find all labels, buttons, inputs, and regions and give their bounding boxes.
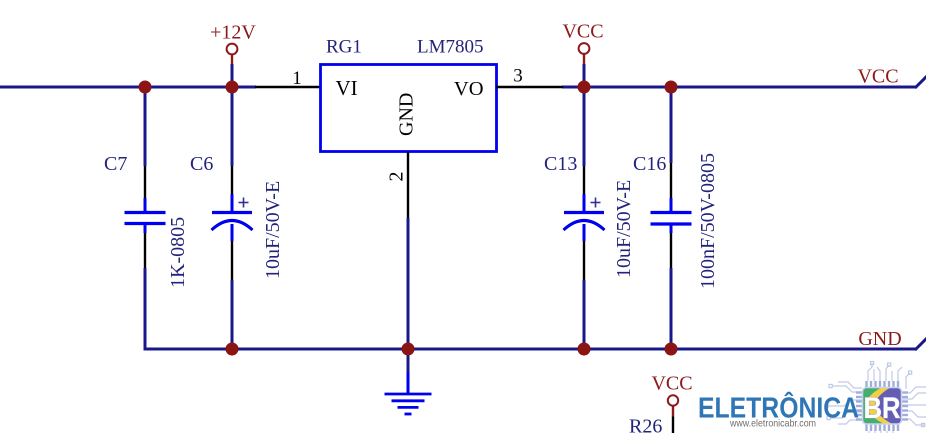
voltage regulator RG1 LM7805 (body)	[321, 65, 497, 152]
wire: VCC port diagonal stub at top right	[915, 75, 926, 88]
logo: BR letters on chip	[864, 392, 901, 425]
junction: ground bus at C13	[578, 343, 591, 356]
pin: C16 top pin (black)	[670, 163, 672, 198]
svg-text:www.eletronicabr.com: www.eletronicabr.com	[729, 418, 816, 430]
svg-text:VCC: VCC	[562, 21, 603, 43]
net label +12V	[210, 22, 256, 44]
svg-text:GND: GND	[396, 93, 418, 136]
wire: C13 bottom to ground bus	[583, 280, 586, 349]
capacitor C6 (polarized body with + mark)	[212, 194, 253, 241]
junction: ground bus at C6	[226, 343, 239, 356]
power symbol VCC (top, circle)	[579, 43, 590, 64]
svg-text:C7: C7	[104, 153, 127, 175]
junction: ground bus at C16	[665, 343, 678, 356]
svg-text:BR: BR	[864, 392, 901, 425]
pin: C7 bottom pin (black)	[144, 233, 146, 268]
svg-text:2: 2	[386, 172, 408, 182]
power symbol +12V (circle)	[227, 44, 238, 64]
net label VCC (top)	[562, 21, 603, 43]
value label 1K-0805 (rotated)	[167, 217, 189, 288]
svg-text:+12V: +12V	[210, 22, 256, 44]
wire: VCC stub down to output net	[583, 64, 586, 87]
svg-text:VI: VI	[336, 76, 358, 100]
ref label C16	[633, 153, 666, 175]
ref label RG1	[326, 37, 362, 58]
logo: circuit traces around chip	[825, 362, 926, 433]
wire: output net from pin 3 to right-edge VCC port	[562, 86, 916, 89]
pin number 1	[292, 68, 302, 89]
wire: ground bus from C7 corner to right-edge GND port, y=349	[144, 348, 917, 351]
value label 10uF/50V-E (rotated)	[262, 181, 284, 279]
capacitor C7 (non-polarized body)	[125, 198, 166, 233]
pin: C13 top pin (black)	[583, 166, 585, 194]
power symbol VCC (bottom, circle, feeding R26)	[668, 395, 678, 416]
junction: output net at C13 / VCC	[578, 81, 591, 94]
pin number 2 (rotated)	[386, 172, 408, 182]
pin: C6 bottom pin (black)	[231, 241, 233, 280]
pin 2 of regulator (black, vertical)	[407, 152, 409, 218]
wire: C6 branch from top net down	[231, 87, 234, 166]
junction: top net at C6 / +12V	[226, 81, 239, 94]
wire: +12V stub down to top net	[231, 64, 234, 87]
ground symbol	[385, 372, 432, 414]
pin: C7 top pin (black)	[144, 166, 146, 198]
wire: pin 2 down to ground bus	[407, 218, 410, 349]
logo: website url	[729, 418, 816, 430]
pin: C16 bottom pin (black)	[670, 233, 672, 268]
ref label C13	[544, 153, 577, 175]
wire: C16 branch from output net down	[670, 87, 673, 163]
net label VCC (bottom)	[651, 373, 692, 395]
net label GND (right port)	[858, 328, 901, 350]
svg-text:LM7805: LM7805	[417, 37, 484, 58]
value label 10uF/50V-E (rotated)	[613, 180, 635, 278]
pin name VI	[336, 76, 358, 100]
junction: ground bus at regulator GND	[402, 343, 415, 356]
value label 100nF/50V-0805 (rotated)	[697, 153, 719, 289]
wire: C13 branch from output net down	[583, 87, 586, 166]
svg-text:VCC: VCC	[651, 373, 692, 395]
pin: resistor R26 top pin (black, cut off at bottom edge)	[672, 417, 674, 433]
ref label C6	[190, 153, 213, 175]
capacitor C16 (non-polarized body)	[651, 198, 692, 233]
junction: output net at C16	[665, 81, 678, 94]
pin number 3	[513, 66, 523, 87]
svg-text:1: 1	[292, 68, 302, 89]
svg-text:10uF/50V-E: 10uF/50V-E	[613, 180, 635, 278]
svg-text:1K-0805: 1K-0805	[167, 217, 189, 288]
wire: C6 bottom to ground bus	[231, 280, 234, 349]
wire: main input net from left edge to pin 1 of U(RG1), y=87	[0, 86, 256, 89]
wire: C7 bottom to ground bus corner	[144, 268, 147, 350]
capacitor C13 (polarized body with + mark)	[564, 194, 605, 241]
svg-text:RG1: RG1	[326, 37, 362, 58]
wire: C16 bottom to ground bus	[670, 268, 673, 349]
svg-text:C13: C13	[544, 153, 577, 175]
wire: GND port diagonal stub at bottom right	[915, 337, 926, 350]
svg-text:10uF/50V-E: 10uF/50V-E	[262, 181, 284, 279]
net label VCC (right port)	[857, 66, 898, 88]
pin: C13 bottom pin (black)	[583, 241, 585, 280]
pin 3 of regulator (black) with number	[496, 86, 563, 88]
ref label C7	[104, 153, 127, 175]
logo: ELETRÔNICA wordmark	[698, 392, 859, 425]
logo: chip pins	[856, 381, 908, 431]
svg-text:R26: R26	[629, 416, 662, 433]
pin name VO	[454, 78, 484, 100]
svg-text:VCC: VCC	[857, 66, 898, 88]
junction: top net at C7	[139, 81, 152, 94]
svg-text:3: 3	[513, 66, 523, 87]
wire: C7 branch from top net down to capacitor	[144, 87, 147, 166]
svg-text:GND: GND	[858, 328, 901, 350]
svg-text:C6: C6	[190, 153, 213, 175]
wire: ground bus down to ground symbol	[407, 349, 410, 372]
svg-text:C16: C16	[633, 153, 666, 175]
ref label R26	[629, 416, 662, 433]
value label LM7805	[417, 37, 484, 58]
logo: chip body (Brazil flag style)	[863, 386, 904, 426]
svg-text:VO: VO	[454, 78, 484, 100]
pin 1 of regulator (black) with number	[255, 86, 321, 88]
svg-text:100nF/50V-0805: 100nF/50V-0805	[697, 153, 719, 289]
pin: C6 top pin (black)	[231, 166, 233, 194]
pin name GND (rotated)	[396, 93, 418, 136]
